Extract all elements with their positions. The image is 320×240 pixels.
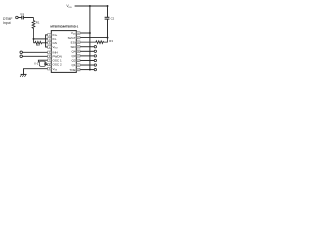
svg-text:Q3: Q3	[72, 54, 76, 58]
svg-text:Q4: Q4	[72, 50, 76, 54]
svg-text:St/GT: St/GT	[68, 36, 76, 40]
svg-text:R3: R3	[109, 39, 113, 43]
svg-text:TOE: TOE	[69, 68, 75, 72]
svg-text:MT8870D/MT8870D-1: MT8870D/MT8870D-1	[50, 25, 78, 29]
svg-text:R1: R1	[36, 21, 40, 25]
svg-text:X-1: X-1	[34, 62, 39, 66]
svg-text:Q1: Q1	[72, 63, 76, 67]
svg-text:Input: Input	[3, 21, 11, 25]
svg-text:StD: StD	[71, 45, 77, 49]
svg-text:Q2: Q2	[72, 59, 76, 63]
svg-text:C2: C2	[111, 17, 115, 21]
svg-text:R2: R2	[36, 43, 40, 47]
svg-text:ESt: ESt	[71, 40, 76, 44]
svg-text:C1: C1	[20, 12, 24, 16]
